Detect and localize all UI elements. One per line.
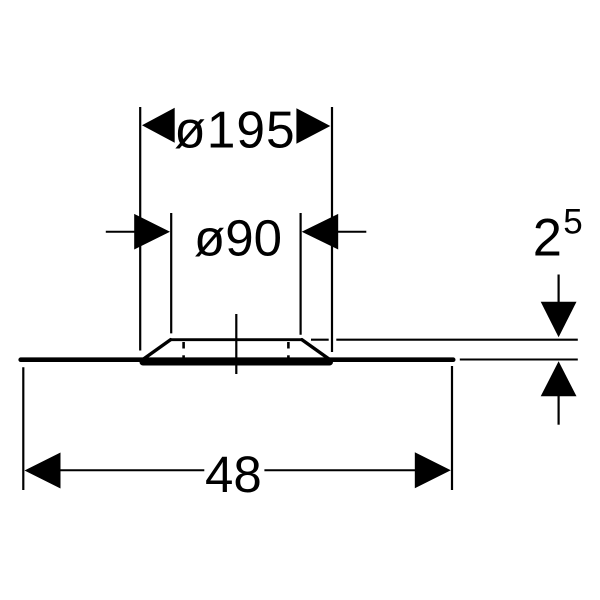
svg-text:ø195: ø195 bbox=[174, 101, 295, 159]
svg-text:ø90: ø90 bbox=[194, 209, 282, 266]
svg-text:2: 2 bbox=[533, 209, 562, 268]
svg-text:5: 5 bbox=[563, 203, 582, 242]
svg-text:48: 48 bbox=[205, 446, 262, 503]
